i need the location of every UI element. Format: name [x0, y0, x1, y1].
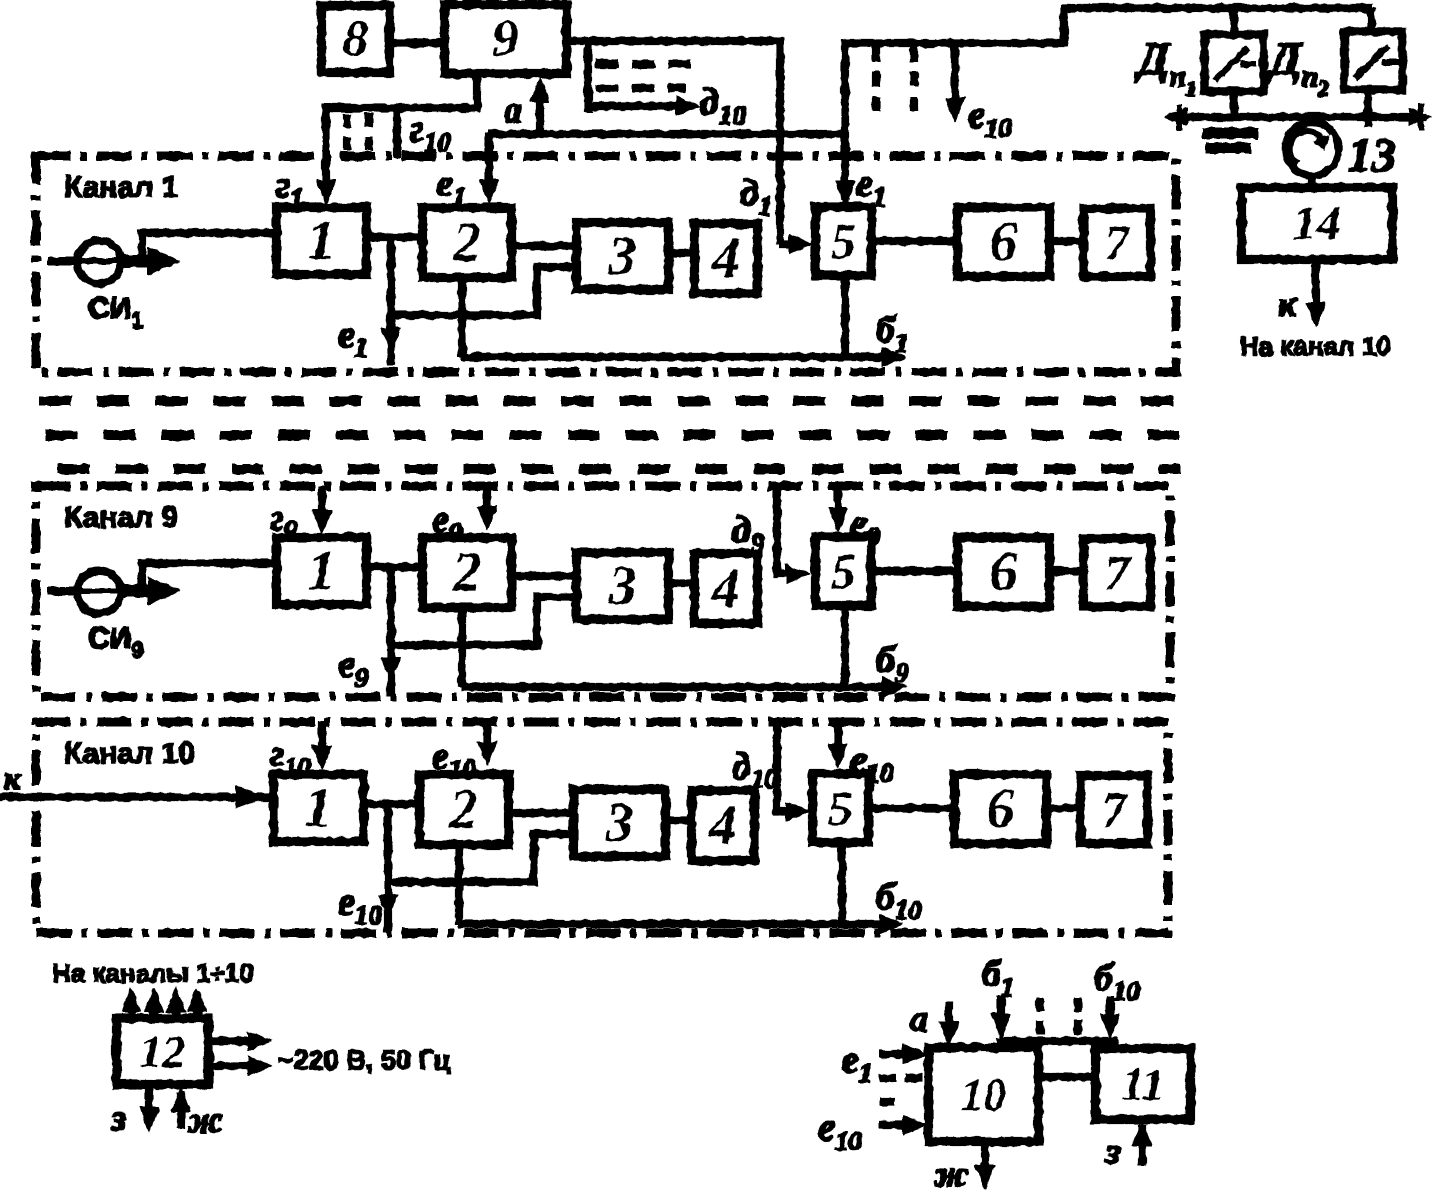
block 3 ch9: [577, 553, 668, 619]
svg-text:2: 2: [452, 542, 481, 604]
block 4 ch1: [695, 224, 757, 293]
svg-text:7: 7: [1105, 545, 1132, 601]
svg-text:ж: ж: [187, 1100, 222, 1140]
wire SI9 to block1: [142, 563, 277, 589]
svg-text:5: 5: [831, 213, 856, 269]
wire g9 stub: [318, 486, 325, 526]
block 9: [445, 5, 566, 73]
svg-text:5: 5: [831, 543, 856, 599]
channel 10 border: [36, 722, 1168, 933]
wire d9 stub: [777, 486, 793, 574]
svg-text:3: 3: [608, 555, 637, 617]
wire 13 to 14: [1308, 174, 1315, 190]
svg-text:4: 4: [708, 795, 737, 857]
svg-text:а: а: [910, 999, 928, 1039]
d-bundle dash 1: [596, 60, 690, 67]
block 2 ch9: [423, 538, 511, 607]
svg-text:4: 4: [711, 228, 740, 290]
wire block5 bottom ch9: [841, 605, 848, 687]
wire b9 feedback: [462, 683, 884, 690]
wire block5 bottom ch1: [841, 275, 848, 357]
wire top line to sensors: [1061, 4, 1371, 11]
block 4 ch10: [692, 791, 754, 860]
b bus drop to block 10: [997, 1038, 1004, 1048]
wire block2 bottom down ch1: [458, 277, 465, 357]
source SI1 symbol: [48, 241, 155, 283]
svg-text:13: 13: [1348, 129, 1396, 182]
block 2 ch1: [423, 208, 511, 277]
power arrows up from 12: [127, 996, 134, 1019]
source SI9 symbol: [48, 571, 155, 613]
block 6 ch9: [958, 538, 1049, 606]
svg-text:14: 14: [1293, 197, 1341, 250]
svg-text:ж: ж: [933, 1154, 968, 1194]
block 1 ch9: [277, 538, 366, 604]
svg-text:7: 7: [1105, 215, 1132, 271]
wire 9 right to d-line: [566, 37, 784, 44]
e-bundle dash 2: [910, 47, 917, 120]
wire a into block 9: [536, 86, 543, 134]
svg-text:з: з: [111, 1098, 126, 1138]
block 1 ch1: [277, 208, 366, 274]
e10 input arrow: [879, 1121, 912, 1128]
wire k into channel 10: [0, 793, 274, 800]
wire 5-6 ch1: [871, 237, 958, 244]
wire 1-2 ch1: [366, 233, 423, 240]
wire e10 stub block5: [834, 722, 841, 760]
wire 3-4 ch10: [665, 816, 692, 823]
wire 1-2 ch10: [363, 800, 420, 807]
wire e1 into block2 ch1: [485, 134, 492, 196]
zh output of 10: [981, 1141, 988, 1180]
wire 9 bottom to g-bus: [326, 73, 477, 108]
svg-text:к: к: [1278, 284, 1297, 324]
channel 9 border: [36, 486, 1170, 697]
separator dashes row 3: [58, 465, 1180, 474]
wire 5-6 ch10: [868, 804, 955, 811]
e1 input arrow: [879, 1050, 912, 1057]
block 6 ch10: [955, 775, 1046, 843]
g-bundle dash 2: [365, 114, 372, 154]
b bundle dash 1: [1036, 998, 1043, 1034]
wire g1 into block1 ch1: [322, 104, 329, 196]
block 10 bottom: [929, 1048, 1038, 1141]
svg-text:12: 12: [140, 1026, 186, 1077]
b bundle dash 2: [1074, 998, 1081, 1034]
svg-text:2: 2: [449, 779, 478, 841]
e dash 2: [880, 1098, 906, 1105]
svg-text:На каналы 1÷10: На каналы 1÷10: [52, 958, 254, 988]
wire b1 feedback: [462, 353, 884, 360]
g-bundle dash 1: [343, 114, 350, 154]
block 3 ch10: [574, 790, 665, 856]
wire 1-2 ch9: [366, 563, 423, 570]
wire block2 jog to block3 ch1: [391, 267, 577, 315]
svg-text:6: 6: [990, 211, 1018, 273]
svg-text:На канал 10: На канал 10: [1240, 331, 1391, 361]
svg-text:Канал 9: Канал 9: [64, 501, 178, 534]
wire Dp1 to bus: [1230, 91, 1237, 120]
b1 arrow: [997, 996, 1004, 1028]
wire e9 stub block2: [483, 486, 490, 522]
block 14: [1242, 188, 1392, 259]
block 5 ch10: [813, 774, 868, 842]
wire block5 bottom ch10: [838, 842, 845, 924]
e-bundle arrow e10: [951, 43, 958, 108]
wire e1 drop to block5 ch1: [841, 40, 848, 199]
block 6 ch1: [958, 208, 1049, 276]
bus left tick: [1177, 104, 1182, 130]
wire SI1 to block1: [142, 233, 277, 259]
wire 2-3 ch9: [511, 572, 577, 579]
svg-text:8: 8: [343, 11, 369, 68]
block 11 bottom: [1096, 1049, 1190, 1119]
g-bundle stub g10: [393, 108, 400, 157]
wire e10 stub block2: [483, 722, 490, 758]
svg-text:11: 11: [1121, 1059, 1164, 1110]
a arrow into block 10: [945, 1003, 952, 1036]
svg-text:3: 3: [608, 225, 637, 287]
wire b10 feedback: [459, 920, 881, 927]
wire 5-6 ch9: [871, 567, 958, 574]
wire k output: [1312, 259, 1319, 318]
svg-text:1: 1: [305, 777, 333, 839]
svg-text:4: 4: [711, 558, 740, 620]
wire 8-9: [389, 39, 445, 46]
block 5 ch9: [816, 537, 871, 605]
svg-text:6: 6: [987, 778, 1015, 840]
svg-text:Канал 10: Канал 10: [64, 737, 195, 770]
svg-text:10: 10: [961, 1069, 1007, 1120]
svg-text:9: 9: [493, 11, 519, 68]
block 7 ch1: [1084, 209, 1150, 276]
wire 2-3 ch1: [511, 242, 577, 249]
svg-text:1: 1: [308, 540, 336, 602]
meter 13: [1286, 123, 1338, 175]
bus right tick: [1419, 104, 1424, 130]
wire 10-11: [1038, 1073, 1096, 1080]
wire 6-7 ch1: [1049, 237, 1084, 244]
wire z output of 12: [145, 1084, 152, 1122]
svg-text:~220 В, 50 Гц: ~220 В, 50 Гц: [278, 1045, 451, 1075]
bus line with end arrows: [1173, 113, 1426, 120]
sensor Dp1: [1205, 35, 1263, 91]
wire zh input of 12: [177, 1092, 184, 1128]
wire d1 into block5 ch1: [780, 240, 797, 247]
block 5 ch1: [816, 207, 871, 275]
block 7 ch10: [1081, 776, 1147, 843]
wire 6-7 ch9: [1049, 567, 1084, 574]
DC symbol: [1203, 128, 1257, 138]
block 1 ch10: [274, 775, 363, 841]
block 3 ch1: [577, 223, 668, 289]
svg-text:1: 1: [308, 210, 336, 272]
mains arrow 1: [208, 1037, 250, 1044]
d-bundle dash 2: [596, 84, 686, 91]
e dash 1: [880, 1074, 925, 1081]
block 2 ch10: [420, 775, 508, 844]
channel 1 border: [36, 156, 1176, 372]
svg-text:3: 3: [605, 792, 634, 854]
wire top to Dp2: [1367, 8, 1374, 32]
b10 arrow: [1106, 996, 1113, 1028]
svg-text:а: а: [504, 90, 522, 130]
wire block2 bottom down ch9: [458, 607, 465, 687]
wire top to Dp1: [1230, 8, 1237, 35]
wire e9 stub block5: [834, 486, 841, 524]
sensor Dp2: [1345, 32, 1402, 89]
separator dashes row 2: [46, 431, 1180, 440]
wire block2 bottom down ch10: [455, 844, 462, 924]
d-bundle arrow d10: [590, 102, 676, 109]
svg-text:6: 6: [990, 541, 1018, 603]
wire e10 output down: [384, 804, 391, 932]
svg-text:7: 7: [1102, 782, 1129, 838]
block 4 ch9: [695, 554, 757, 623]
svg-text:5: 5: [828, 780, 853, 836]
wire e1 output down: [387, 237, 394, 365]
wire g10 stub: [318, 722, 325, 762]
wire Dp2 to bus: [1364, 89, 1371, 127]
d-bundle bracket: [584, 41, 591, 112]
svg-text:з: з: [1105, 1131, 1120, 1171]
wire 3-4 ch9: [668, 579, 695, 586]
wire e-line horizontal: [845, 39, 1064, 46]
svg-text:к: к: [4, 760, 21, 796]
wire 3-4 ch1: [668, 249, 695, 256]
wire a-line horizontal: [489, 130, 848, 137]
wire 6-7 ch10: [1046, 804, 1081, 811]
wire 2-3 ch10: [508, 809, 574, 816]
mains arrow 2: [208, 1062, 250, 1069]
wire block2 jog to block3 ch10: [388, 834, 574, 882]
wire d10 stub: [777, 722, 793, 811]
separator dashes row 1: [40, 397, 1180, 406]
svg-text:Канал 1: Канал 1: [64, 171, 178, 204]
block 12: [117, 1019, 208, 1084]
wire e-line riser: [1060, 8, 1067, 46]
svg-text:2: 2: [452, 212, 481, 274]
b bus line: [1001, 1041, 1114, 1049]
wire e9 output down: [387, 567, 394, 695]
wire block2 jog to block3 ch9: [391, 597, 577, 645]
z input of 11: [1138, 1125, 1145, 1165]
wire d1 drop: [776, 38, 783, 244]
block 7 ch9: [1084, 539, 1150, 606]
block 8: [322, 6, 389, 72]
e-bundle dash 1: [872, 47, 879, 120]
